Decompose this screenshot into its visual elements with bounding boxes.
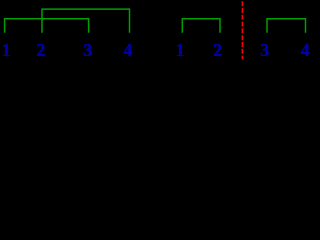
svg-text:4: 4 xyxy=(301,40,310,60)
svg-text:4: 4 xyxy=(123,40,132,60)
svg-text:3: 3 xyxy=(83,40,92,60)
bracket left {1,3} xyxy=(5,19,89,33)
svg-text:2: 2 xyxy=(213,40,222,60)
red dashed divider xyxy=(241,1,243,59)
svg-text:2: 2 xyxy=(36,40,45,60)
bracket right {3,4} xyxy=(267,19,306,33)
svg-text:3: 3 xyxy=(260,40,269,60)
svg-text:1: 1 xyxy=(2,40,11,60)
bracket left {2,4} xyxy=(42,9,130,33)
bracket right {1,2} xyxy=(182,19,220,33)
svg-text:1: 1 xyxy=(176,40,185,60)
